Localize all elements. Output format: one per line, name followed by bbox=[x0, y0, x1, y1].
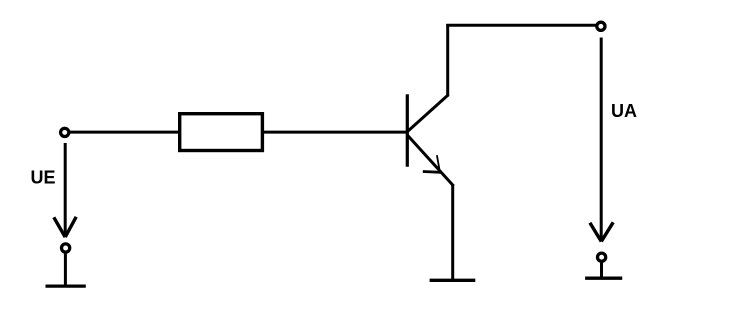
wire input to resistor bbox=[70, 131, 179, 134]
UA arrowhead bbox=[590, 222, 613, 241]
UA arrow line bbox=[600, 38, 603, 241]
UE arrow line bbox=[64, 143, 67, 236]
svg-text:UA: UA bbox=[611, 101, 637, 121]
terminal input UE top bbox=[61, 128, 69, 136]
terminal output UA top bbox=[597, 22, 605, 30]
resistor R1 bbox=[180, 114, 263, 151]
svg-text:UE: UE bbox=[31, 167, 56, 187]
ground left bar bbox=[46, 284, 86, 287]
ground right stub bbox=[600, 263, 603, 279]
transistor Q1 bbox=[407, 94, 453, 186]
wire collector up bbox=[446, 24, 449, 97]
ground right bar bbox=[585, 277, 622, 280]
ground middle bbox=[430, 279, 476, 282]
UE arrowhead bbox=[54, 217, 76, 237]
wire top horizontal bbox=[446, 24, 596, 27]
ground left stub bbox=[64, 254, 67, 287]
terminal UA bottom bbox=[598, 253, 606, 261]
wire emitter down bbox=[451, 184, 454, 280]
wire resistor to base bbox=[264, 131, 407, 134]
terminal UE bottom bbox=[62, 244, 70, 252]
